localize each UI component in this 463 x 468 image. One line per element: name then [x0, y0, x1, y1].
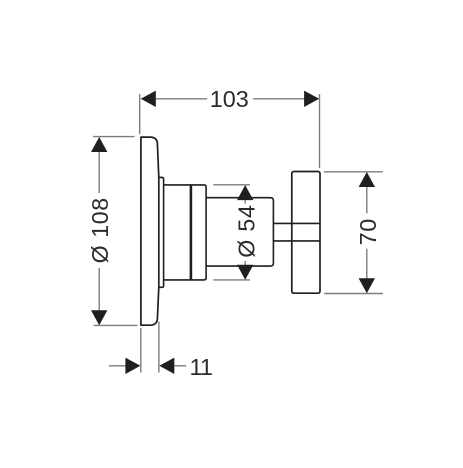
dim 103: left arrowhead — [141, 91, 156, 107]
dim 11: right tail line — [174, 365, 186, 367]
dim O54: dimension line upper segment — [244, 186, 246, 204]
dim 103: left extension line — [139, 94, 141, 134]
dim O54: top arrowhead — [237, 185, 253, 200]
dim O108: top arrowhead — [91, 137, 107, 152]
dim 103: dimension line right segment — [253, 98, 318, 100]
dim 70: dimension line lower segment — [366, 249, 368, 292]
dim 70: top extension line — [324, 171, 383, 173]
dim O108: dimension line upper segment — [98, 138, 100, 193]
dim O54: bottom arrowhead — [237, 265, 253, 280]
dim 103: right arrowhead — [304, 91, 319, 107]
dim 11: right extension line — [158, 322, 160, 373]
dim O108: top extension line — [93, 136, 134, 138]
dim O108: bottom arrowhead — [91, 310, 107, 325]
dim 11: left tail line — [109, 365, 126, 367]
dim 70: top arrowhead — [359, 172, 375, 187]
svg-text:70: 70 — [355, 218, 381, 245]
dim 11: left arrowhead — [125, 358, 140, 374]
dim O54: dimension line lower segment — [244, 261, 246, 279]
svg-text:103: 103 — [210, 86, 249, 112]
dim 103: right extension line — [319, 94, 321, 168]
escutcheon plate outline (dome, side view) — [141, 137, 159, 325]
dim 103: dimension line left segment — [142, 98, 208, 100]
svg-text:Ø 54: Ø 54 — [234, 204, 260, 257]
sleeve cylinder O54 — [164, 185, 207, 280]
handle — [292, 172, 320, 294]
dim 70: bottom extension line — [324, 293, 383, 295]
dim 11: right arrowhead — [159, 358, 174, 374]
svg-text:11: 11 — [189, 354, 212, 380]
narrow valve body cylinder — [206, 198, 273, 266]
collar ring behind plate face — [159, 177, 164, 287]
svg-text:Ø 108: Ø 108 — [87, 197, 113, 263]
stem upper line — [273, 222, 320, 224]
dim O54: bottom extension line — [213, 279, 250, 281]
dim 11: left extension line — [140, 328, 142, 373]
dim O54: top extension line — [213, 184, 250, 186]
stem lower line — [273, 240, 320, 242]
dim 70: dimension line upper segment — [366, 173, 368, 213]
dim O108: bottom extension line — [94, 324, 138, 326]
dim O108: dimension line lower segment — [98, 268, 100, 324]
dim 70: bottom arrowhead — [359, 278, 375, 293]
sleeve joint line — [190, 185, 193, 280]
